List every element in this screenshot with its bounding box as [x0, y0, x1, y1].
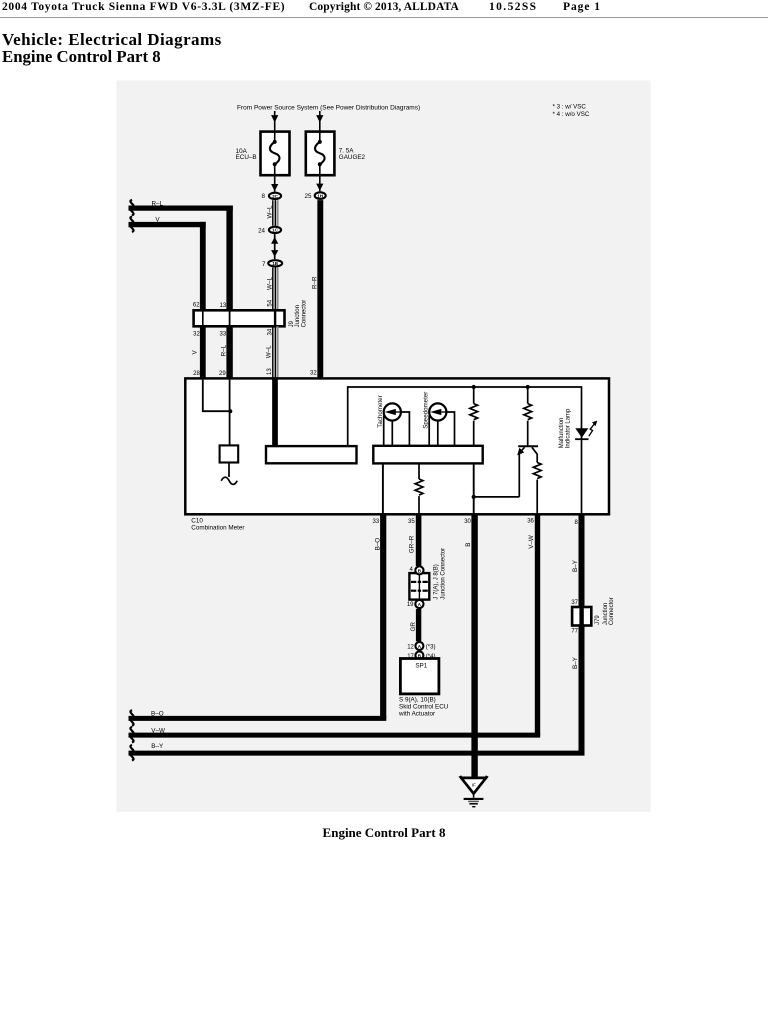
caption: [0, 825, 768, 841]
svg-text:J9: J9: [289, 320, 295, 327]
internal top wire: [348, 386, 582, 513]
wire R-L J9 to C10 pin 29: [226, 326, 232, 378]
C10 inner wire from pin 29: [229, 380, 231, 446]
svg-text:25: 25: [305, 193, 312, 200]
svg-text:R–R: R–R: [311, 276, 318, 289]
feed arrow to fuse GAUGE2: [316, 111, 323, 133]
svg-text:13: 13: [220, 303, 227, 309]
svg-text:R–L: R–L: [221, 344, 228, 356]
wire V-W from pin 36: [129, 514, 541, 743]
svg-text:2C: 2C: [272, 194, 279, 199]
svg-text:GR: GR: [410, 622, 417, 632]
svg-text:(*3): (*3): [426, 645, 436, 651]
node junction dot: [228, 409, 232, 413]
svg-text:V–W: V–W: [528, 535, 535, 549]
connector circle A pin 12: [415, 642, 423, 650]
junction connector J79 on B-Y: [572, 607, 591, 626]
tachometer gauge: [384, 403, 410, 446]
C10 inner wire to pin 33: [382, 463, 384, 513]
fuse F2 7.5A GAUGE2: [306, 132, 335, 176]
svg-text:Malfunction: Malfunction: [559, 418, 565, 449]
node dot at emitter branch: [472, 495, 476, 499]
connector oval 2C pin 8: [262, 193, 282, 201]
svg-text:28: 28: [193, 371, 200, 377]
svg-text:8: 8: [262, 193, 266, 200]
svg-text:B–O: B–O: [375, 538, 382, 551]
connector oval 1B pin 7: [262, 260, 282, 268]
svg-text:19: 19: [407, 602, 414, 608]
svg-text:V–W: V–W: [151, 728, 165, 735]
connector circle B pin 17: [415, 651, 423, 659]
svg-text:S 9(A), 10(B): S 9(A), 10(B): [399, 696, 436, 703]
svg-text:Speedometer: Speedometer: [422, 392, 429, 429]
wire W-L oval 2C to 1C: [273, 200, 278, 226]
C10 internal component box: [220, 445, 239, 462]
connector pair arrows between 1C and 1B: [271, 234, 278, 259]
svg-text:Junction Connector: Junction Connector: [441, 548, 447, 600]
svg-text:Combination Meter: Combination Meter: [191, 524, 244, 531]
wire GR to skid control ECU: [416, 609, 421, 641]
svg-text:W–L: W–L: [266, 205, 273, 218]
wire V from left: [129, 216, 206, 310]
svg-text:From Power Source System (See: From Power Source System (See Power Dist…: [237, 105, 420, 112]
wire R-R oval 1H to C10 pin 32: [317, 200, 323, 446]
connector oval 1C pin 24: [258, 227, 281, 235]
svg-text:SP1: SP1: [415, 663, 427, 670]
skid control ECU box SP1: [400, 659, 439, 694]
svg-text:32: 32: [310, 370, 317, 376]
wire W-L oval 1B to J9: [273, 268, 278, 311]
ground symbol IF: [460, 776, 487, 807]
svg-text:32: 32: [193, 331, 200, 337]
junction connector J9: [194, 310, 285, 326]
svg-text:1C: 1C: [272, 228, 279, 233]
svg-text:33: 33: [220, 331, 227, 337]
svg-text:B–O: B–O: [151, 711, 164, 718]
node dot on top wire at transistor branch: [526, 385, 530, 389]
svg-text:33: 33: [373, 519, 380, 525]
transistor Q1: [517, 446, 538, 497]
resistor R1: [470, 388, 478, 447]
diagram background: [117, 81, 651, 813]
MIL LED lamp: [575, 421, 597, 440]
svg-text:Skid Control ECU: Skid Control ECU: [399, 704, 449, 711]
resistor R4 to pin 35: [415, 463, 423, 513]
resistor R2 above transistor: [524, 388, 532, 446]
svg-text:Junction: Junction: [295, 305, 301, 327]
header line: [2, 1, 285, 13]
wire B from pin 30 to ground: [471, 514, 477, 778]
node dot on top wire: [472, 385, 476, 389]
junction connector J7/J8 box: [409, 573, 429, 600]
wire B-Y from pin 8: [129, 514, 585, 761]
svg-text:with Actuator: with Actuator: [398, 711, 435, 718]
svg-text:Connector: Connector: [609, 597, 615, 625]
svg-text:12: 12: [407, 645, 414, 651]
wire W-L inside C10 to bar: [272, 378, 278, 446]
C10 inner wire from pin 28: [203, 380, 230, 412]
svg-text:GAUGE2: GAUGE2: [339, 154, 366, 161]
svg-text:W–L: W–L: [266, 345, 273, 358]
feed arrow to fuse ECU-B: [271, 111, 278, 133]
resistor R3 below transistor: [533, 463, 541, 514]
svg-text:J 7(A), J 8(B): J 7(A), J 8(B): [434, 564, 440, 599]
svg-text:Indicator Lamp: Indicator Lamp: [566, 408, 572, 448]
wire B-O from pin 33: [129, 514, 387, 726]
connector oval 1H pin 25: [305, 192, 326, 200]
svg-text:30: 30: [464, 519, 471, 525]
J7/J8 bottom connector circle pin 19: [415, 600, 423, 608]
wire V J9 to C10 pin 28: [200, 326, 206, 378]
svg-text:ECU–B: ECU–B: [236, 154, 257, 161]
fuse F1 10A ECU-B: [261, 132, 290, 176]
combination meter C10 box: [185, 378, 609, 514]
svg-text:36: 36: [527, 519, 534, 525]
wire base/emitter to node: [474, 496, 520, 498]
svg-text:62: 62: [193, 303, 200, 309]
wire R-L from left: [129, 200, 233, 311]
svg-text:24: 24: [258, 227, 265, 234]
svg-text:37: 37: [571, 600, 578, 606]
bus bar 2: [373, 446, 482, 464]
wire W-L J9 to C10 pin 13: [273, 326, 278, 378]
svg-text:* 3 : w/ VSC: * 3 : w/ VSC: [553, 104, 587, 111]
C10 bottom pin labels: [373, 519, 579, 526]
svg-text:77: 77: [571, 629, 578, 635]
bus bar 1: [266, 446, 357, 463]
svg-text:1B: 1B: [272, 261, 279, 266]
svg-text:R–L: R–L: [152, 200, 164, 207]
svg-text:W–L: W–L: [267, 277, 274, 290]
svg-text:B: B: [465, 543, 472, 547]
wire GR-R from pin 35: [416, 514, 422, 567]
svg-text:Connector: Connector: [302, 300, 308, 328]
svg-text:7: 7: [262, 261, 266, 268]
svg-text:B–Y: B–Y: [151, 743, 164, 750]
svg-text:B–Y: B–Y: [572, 656, 579, 669]
svg-text:Tachometer: Tachometer: [377, 395, 384, 427]
J7/J8 top connector circle pin 4: [415, 566, 423, 574]
svg-text:* 4 : w/o VSC: * 4 : w/o VSC: [553, 111, 590, 118]
internal ground squiggle: [221, 463, 237, 485]
svg-text:IF: IF: [472, 782, 476, 788]
svg-text:29: 29: [219, 371, 226, 377]
svg-text:J79: J79: [595, 615, 601, 625]
wire fuse F1 to connector 2C with arrow: [271, 175, 278, 192]
svg-text:B–Y: B–Y: [572, 559, 579, 572]
svg-text:35: 35: [408, 519, 415, 525]
C10 inner wire to pin 30: [473, 463, 475, 513]
speedometer gauge: [429, 403, 454, 446]
svg-text:13: 13: [267, 368, 273, 375]
svg-text:1H: 1H: [317, 194, 324, 199]
wire fuse F2 to connector 1H with arrow: [316, 175, 323, 191]
svg-text:54: 54: [268, 299, 274, 306]
svg-text:GR–R: GR–R: [409, 535, 416, 553]
svg-text:C10: C10: [191, 517, 203, 524]
